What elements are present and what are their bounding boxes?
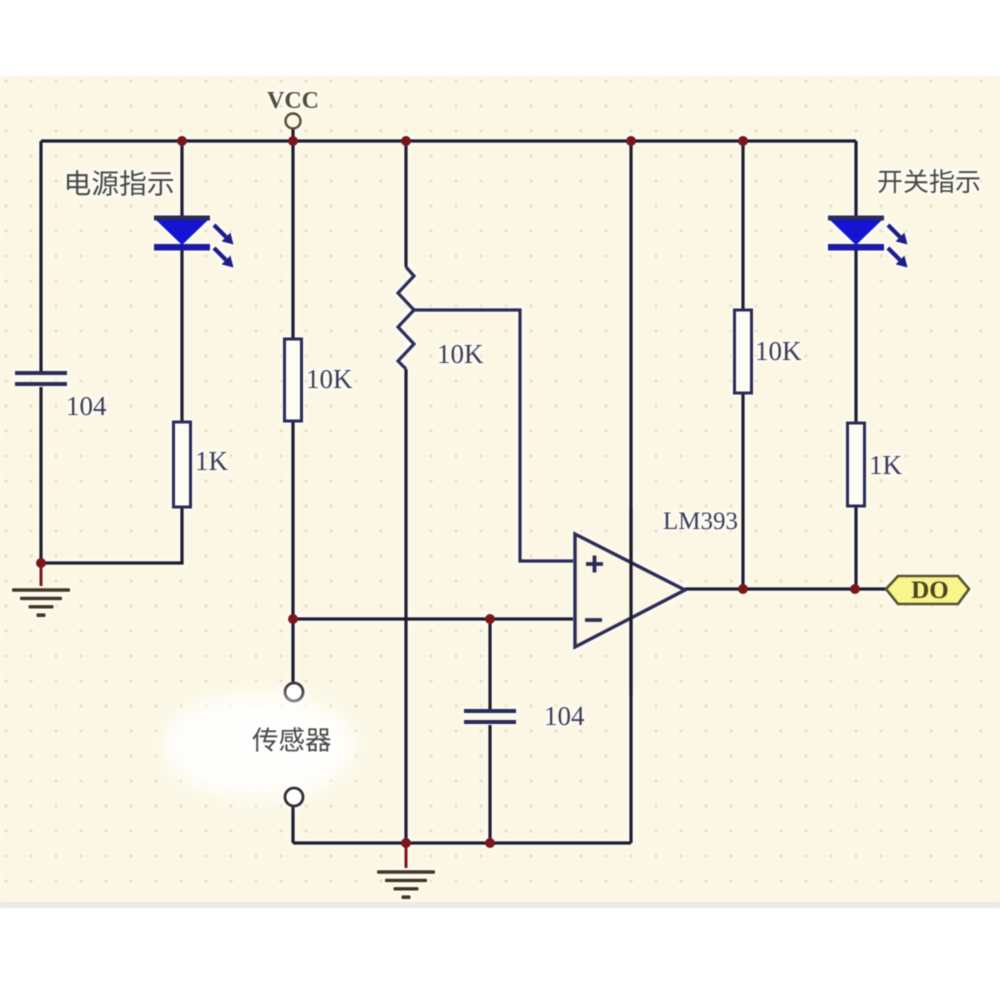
VCC terminal xyxy=(286,114,301,129)
wire opamp output xyxy=(685,587,886,590)
wire R4 bottom to output xyxy=(741,393,744,589)
resistor R4 10K xyxy=(735,310,752,393)
LED D2 xyxy=(828,216,884,221)
LED D1 xyxy=(154,216,210,221)
svg-text:10K: 10K xyxy=(306,364,353,394)
wire capacitor C2 lower xyxy=(488,725,491,843)
sensor label 传感器 xyxy=(252,727,330,751)
wire pot bottom to bottom rail xyxy=(404,369,407,843)
resistor R3 10K xyxy=(285,339,302,421)
resistor R5 1K xyxy=(848,423,865,506)
white halo under ink xyxy=(12,88,979,899)
svg-text:104: 104 xyxy=(544,701,585,731)
bottom edge band xyxy=(0,902,1000,908)
sensor lower terminal xyxy=(285,788,303,806)
wire R5 bottom to output xyxy=(854,506,857,589)
wire VCC top rail xyxy=(41,139,856,142)
DO output flag xyxy=(886,576,969,604)
capacitor C1 xyxy=(15,371,67,375)
wire R4 column xyxy=(741,141,744,310)
wire minus input xyxy=(293,617,573,620)
svg-text:DO: DO xyxy=(911,577,949,604)
svg-text:1K: 1K xyxy=(195,446,229,476)
wire opamp power column xyxy=(629,141,632,843)
wire ground junction to R2 bottom xyxy=(41,507,182,563)
capacitor C2 xyxy=(464,709,516,713)
op-amp U1 LM393 xyxy=(575,534,685,647)
wire LED2 column xyxy=(854,141,857,217)
wire capacitor C2 upper xyxy=(488,619,491,709)
svg-text:1K: 1K xyxy=(869,450,903,480)
wire VCC column to R3 xyxy=(291,141,294,339)
wire LED2 to R5 xyxy=(854,250,857,423)
wire pot column upper xyxy=(404,141,407,267)
sensor upper terminal xyxy=(285,683,303,701)
svg-text:LM393: LM393 xyxy=(663,508,738,535)
potentiometer RP1 zigzag xyxy=(398,267,414,369)
white blob behind sensor label xyxy=(167,698,351,794)
ground GND1 xyxy=(36,558,46,568)
wire pot wiper tap to plus input xyxy=(414,310,573,561)
power indicator label 电源指示 xyxy=(67,170,173,196)
switch indicator label 开关指示 xyxy=(878,169,979,193)
ground GND2 xyxy=(401,838,411,848)
svg-text:10K: 10K xyxy=(755,336,802,366)
wire sensor lower terminal down xyxy=(291,806,294,843)
junction dots xyxy=(177,136,187,146)
wire LED1 column upper xyxy=(180,141,183,217)
wire R3 bottom to sensor upper terminal xyxy=(291,421,294,682)
wire VCC terminal stub xyxy=(291,128,294,141)
svg-text:10K: 10K xyxy=(437,339,484,369)
wire capacitor C1 to ground junction xyxy=(39,387,42,563)
svg-text:104: 104 xyxy=(66,391,107,421)
wire left column to capacitor xyxy=(39,141,42,371)
svg-text:VCC: VCC xyxy=(267,88,319,114)
wire bottom rail xyxy=(293,841,631,844)
wire LED1 to R2 xyxy=(180,250,183,423)
resistor R2 1K xyxy=(174,422,191,507)
